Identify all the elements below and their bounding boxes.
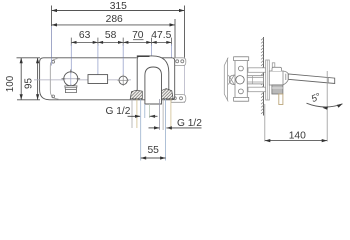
svg-text:58: 58 <box>105 30 117 41</box>
spout arch top dark segment <box>137 55 150 57</box>
extension lines down through front view <box>71 44 171 86</box>
side view: mounting bracket <box>235 57 247 101</box>
handle base <box>65 86 77 93</box>
5 degree arc <box>307 103 343 107</box>
svg-text:70: 70 <box>132 30 144 41</box>
cartridge window rectangle <box>88 75 108 84</box>
front view: cover plate <box>40 58 175 100</box>
svg-text:47.5: 47.5 <box>151 30 171 41</box>
plate screw hole bottom-left <box>52 95 55 98</box>
extension segments re-drawn over plate <box>52 58 124 86</box>
extension line through tabs <box>184 58 186 104</box>
small circle (screw) <box>119 76 127 84</box>
handle cardinal ticks <box>62 70 81 89</box>
bracket holes <box>239 66 244 71</box>
svg-text:286: 286 <box>106 14 123 25</box>
under-spout extension lines <box>132 99 171 161</box>
side view: limiter pin <box>272 63 275 68</box>
plate inner outline (left end) <box>50 59 58 100</box>
svg-text:5°: 5° <box>310 91 323 105</box>
front view: bottom mounting tab <box>171 95 186 103</box>
tube collar lines <box>285 74 287 80</box>
side view: plate edge-on <box>266 60 270 100</box>
handle circle <box>64 72 78 86</box>
dimension 286 <box>52 19 176 58</box>
svg-text:G 1/2: G 1/2 <box>106 106 131 117</box>
svg-text:63: 63 <box>79 30 91 41</box>
side view: outlet stub <box>279 94 283 105</box>
horizontal centerline <box>34 79 131 81</box>
svg-text:140: 140 <box>289 130 306 141</box>
right nut (hatched) <box>161 89 173 99</box>
front view: top mounting tab <box>174 58 186 66</box>
dimension 95 (left, rotated) <box>37 58 39 100</box>
side view: body block <box>269 71 283 85</box>
side view: spout tube (tilted 5deg) <box>288 74 335 84</box>
left nut (hatched) <box>130 90 142 99</box>
side view: supply pipes behind wall <box>224 58 234 102</box>
5 degree reference line <box>326 71 328 142</box>
side view: valve body circle <box>236 76 244 84</box>
side view: lower outlet block <box>272 85 283 94</box>
dimension 140 <box>264 104 266 142</box>
side view: wall line <box>263 37 265 116</box>
svg-text:G 1/2: G 1/2 <box>177 118 202 129</box>
side view: lower supply bar <box>248 87 266 92</box>
side view: taper to tube <box>283 71 288 85</box>
dimension 315 <box>52 6 185 58</box>
bottom tab screw holes <box>173 97 176 100</box>
chain dimension line 63 / 58 / 70 / 47.5 <box>71 38 171 46</box>
side view: cap bump on body <box>272 67 282 71</box>
side view: left bump <box>229 75 235 85</box>
handle center cross <box>65 78 78 80</box>
spout tube (inner) <box>145 67 162 104</box>
side view: connector to wall <box>247 76 263 84</box>
svg-text:100: 100 <box>5 75 16 92</box>
svg-text:95: 95 <box>24 78 35 89</box>
svg-text:315: 315 <box>110 1 127 12</box>
wall hatching <box>261 38 264 114</box>
side view: upper supply bar <box>248 68 266 73</box>
svg-text:55: 55 <box>147 145 159 156</box>
plate screw hole top-left <box>52 60 55 63</box>
top tab screw holes <box>176 60 179 63</box>
dimension 100 (left, rotated) <box>17 58 41 100</box>
spout arch (outer) <box>137 56 169 93</box>
